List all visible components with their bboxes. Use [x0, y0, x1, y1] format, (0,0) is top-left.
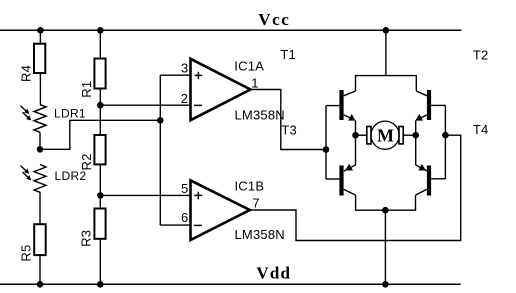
- node: LDR net junction on vertical: [157, 117, 164, 124]
- node: motor left terminal: [352, 132, 359, 139]
- wire R1 to R2: [99, 89, 101, 136]
- wire T1 emitter to motor left node: [355, 121, 357, 136]
- wire motor left node to T3 emitter: [355, 135, 357, 165]
- wire R5 to Vdd: [39, 255, 41, 284]
- svg-text:R4: R4: [19, 65, 34, 82]
- wire bridge bottom to Vdd: [384, 210, 386, 284]
- wire to IC1B inverting input pin 6: [160, 224, 190, 226]
- wire T2 base: [431, 104, 445, 106]
- svg-text:5: 5: [181, 181, 188, 196]
- node: LDR1 / LDR2 junction: [37, 146, 44, 153]
- wire IC1B output to right base bus: [250, 135, 461, 240]
- wire LDR junction to IC1A noninverting net: [40, 120, 160, 149]
- wire R2/R3 node to IC1B noninverting input pin 5: [100, 194, 190, 196]
- svg-text:R2: R2: [79, 153, 94, 170]
- wire IC1A output to left base bus: [251, 90, 327, 150]
- LDR LDR1: [21, 105, 47, 133]
- wire T4 collector to bottom bus: [385, 195, 415, 210]
- LDR LDR2: [21, 165, 47, 197]
- wire Vcc to R4: [39, 30, 41, 43]
- wire IC1A pin3 / LDR net vertical to IC1B pin 6: [159, 75, 161, 225]
- wire motor right node to T4 emitter: [415, 135, 417, 165]
- op-amp IC1A minus mark: [194, 104, 202, 106]
- wire left base bus: [325, 106, 327, 179]
- transistor T1 (top-left NPN): [339, 90, 355, 121]
- svg-text:R3: R3: [79, 230, 94, 247]
- wire top bus to T1 collector: [344, 91, 356, 96]
- transistor T4 (bottom-right PNP): [416, 164, 432, 196]
- wire T3 collector to bottom bus: [356, 195, 386, 210]
- wire to IC1A noninverting input pin 3: [160, 74, 190, 76]
- svg-text:6: 6: [181, 210, 188, 225]
- node: R3 / Vdd junction: [97, 281, 104, 288]
- node: bridge bottom junction: [382, 207, 389, 214]
- op-amp IC1B minus mark: [194, 224, 202, 226]
- svg-text:LM358N: LM358N: [235, 227, 285, 242]
- svg-text:7: 7: [252, 196, 259, 211]
- wire R4 to LDR1: [39, 73, 41, 105]
- wire R1/R2 node to IC1A inverting input pin 2: [100, 104, 190, 106]
- wire LDR1 to junction: [39, 132, 41, 149]
- node: bridge / Vdd junction: [382, 281, 389, 288]
- node: R1 / R2 junction: [97, 102, 104, 109]
- node: Vcc / R4 junction: [37, 27, 44, 34]
- svg-text:R5: R5: [19, 245, 34, 262]
- motor M: [367, 121, 403, 149]
- wire Vcc to R1: [99, 30, 101, 58]
- bridge top bus wire: [356, 76, 417, 91]
- node: Vcc / R1 junction: [97, 27, 104, 34]
- svg-text:2: 2: [181, 91, 188, 106]
- node: R5 / Vdd junction: [37, 281, 44, 288]
- svg-text:LDR1: LDR1: [54, 106, 86, 120]
- op-amp IC1B plus mark: [194, 192, 202, 200]
- resistor R2: [94, 135, 105, 164]
- svg-text:Vdd: Vdd: [256, 263, 291, 282]
- wire right base bus: [444, 105, 446, 178]
- resistor R3: [94, 209, 105, 239]
- resistor R4: [34, 44, 45, 73]
- node: R2 / R3 junction: [97, 192, 104, 199]
- wire T4 base: [431, 178, 445, 180]
- wire R3 to Vdd: [99, 239, 101, 284]
- wire T1 base: [326, 105, 339, 107]
- svg-text:R1: R1: [79, 81, 94, 98]
- svg-text:Vcc: Vcc: [258, 10, 290, 29]
- wire motor right node to brush: [403, 134, 415, 136]
- wire T2 emitter to motor right node: [415, 121, 417, 136]
- svg-text:T2: T2: [473, 48, 489, 63]
- svg-text:M: M: [377, 126, 394, 146]
- svg-text:T1: T1: [280, 47, 296, 62]
- op-amp IC1B: [191, 180, 250, 240]
- resistor R5: [34, 224, 46, 255]
- wire motor left node to brush: [356, 134, 367, 136]
- op-amp IC1A: [191, 59, 251, 120]
- op-amp IC1A plus mark: [195, 72, 203, 79]
- svg-text:T4: T4: [473, 122, 489, 137]
- transistor T2 (top-right NPN): [415, 90, 431, 121]
- node: left base bus junction: [323, 146, 330, 153]
- wire LDR2 to R5: [39, 196, 41, 224]
- wire T3 base: [326, 178, 339, 180]
- Vcc power rail: [0, 29, 461, 31]
- Vdd power rail: [0, 283, 461, 285]
- transistor T3 (bottom-left PNP): [339, 164, 355, 196]
- svg-text:IC1A: IC1A: [234, 59, 264, 74]
- resistor R1: [94, 59, 105, 89]
- svg-text:LM358N: LM358N: [235, 108, 285, 123]
- wire top bus to T2 collector: [416, 91, 427, 96]
- node: motor right terminal: [412, 132, 419, 139]
- wire Vcc down to bridge top bus: [385, 30, 387, 75]
- node: Vcc / bridge feed junction: [383, 27, 390, 34]
- wire R2 to R3: [99, 164, 101, 208]
- svg-text:3: 3: [181, 60, 188, 75]
- svg-text:IC1B: IC1B: [235, 178, 265, 193]
- node: right base bus junction: [442, 132, 449, 139]
- svg-text:1: 1: [251, 76, 258, 91]
- svg-text:T3: T3: [281, 123, 297, 138]
